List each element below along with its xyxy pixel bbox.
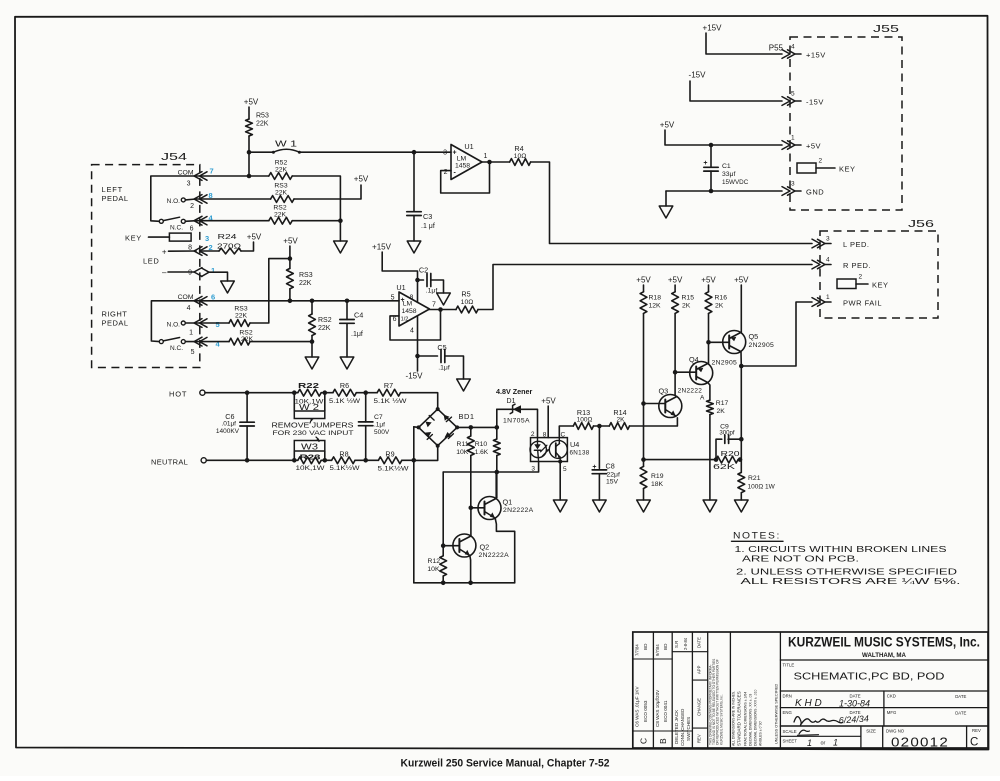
wire Q3 base [644,403,666,405]
capacitor C4 (.1uf) [346,301,348,320]
wire pin8 row [196,198,271,200]
svg-text:R18: R18 [649,295,662,302]
svg-text:+5V: +5V [283,237,298,246]
svg-text:5.1K½W: 5.1K½W [378,465,410,473]
wire Q2 emitter [469,556,472,583]
svg-text:ANGLES ± 0°30: ANGLES ± 0°30' [759,720,763,746]
svg-text:62K: 62K [713,464,736,471]
capacitor C2 (.1uf) [418,279,424,281]
pin 4 arrow (J56) [812,260,820,269]
svg-text:DELETED JACK: DELETED JACK [674,709,679,744]
svg-text:LEFT: LEFT [102,185,124,194]
node RS2 col bottom [310,339,315,344]
capacitor C9 (300pf) [716,439,722,459]
svg-text:PEDAL: PEDAL [102,319,129,328]
resistor R9 (5.1K half W) [355,459,378,461]
wire rail to bridge left [414,426,419,429]
node C8 top [597,424,602,429]
resistor R7 (5.1K half W) [356,392,377,394]
wire pin3 to Q2 base [442,472,444,546]
svg-text:ALL DIMENSIONS ARE IN INCHES.: ALL DIMENSIONS ARE IN INCHES. [732,691,736,746]
title block frame [633,632,988,748]
svg-text:Kurzweil 250 Service Manual, C: Kurzweil 250 Service Manual, Chapter 7-5… [401,758,610,770]
svg-text:5: 5 [216,320,220,329]
svg-text:+15V: +15V [372,243,392,252]
wire R18 to Q3 base [643,313,645,403]
wire to J55 ground [665,191,667,206]
svg-text:DECIMAL DIMENSIONS .XXX ± .010: DECIMAL DIMENSIONS .XXX ± .010 [754,690,758,746]
svg-text:GND: GND [806,188,824,197]
wire R24 to +5V [241,242,254,251]
svg-text:R16: R16 [715,295,728,302]
svg-text:+5V: +5V [541,397,556,406]
key pin J56 [837,279,856,289]
svg-text:APP: APP [697,665,702,674]
svg-text:9: 9 [188,270,192,277]
pin 4 COM arrow [194,296,202,305]
wire R10 col [496,427,498,439]
svg-text:22K: 22K [318,325,331,332]
svg-text:2K: 2K [715,303,724,310]
wire COM right pedal [151,301,196,342]
wire R12 to rail [442,576,444,583]
jumper W2 [293,393,295,411]
wire U1b out [430,309,457,311]
node Q2 base [441,543,446,548]
svg-text:ENG: ENG [783,710,793,715]
wire to ground [339,221,341,241]
svg-text:C4: C4 [354,311,363,320]
resistor R10 (1.6K) [493,439,500,456]
svg-text:1N705A: 1N705A [503,418,530,425]
pin 3 COM arrow [194,172,202,181]
contact N.O. (right) [181,321,185,325]
svg-text:BD1: BD1 [459,412,475,421]
wire +5V to R53 [248,107,250,119]
svg-text:L PED.: L PED. [843,240,869,249]
svg-text:ECO 0041: ECO 0041 [663,700,668,722]
svg-text:BD: BD [643,643,648,650]
transistor Q1 (2N2222A) [478,497,501,520]
resistor R52 pin7 (22K) [269,173,292,180]
svg-text:C: C [639,738,649,744]
svg-text:2: 2 [190,203,194,210]
svg-text:-15V: -15V [689,71,707,80]
svg-text:2-8-84: 2-8-84 [683,637,688,650]
svg-text:KURZWEIL MUSIC SYSTEMS, Inc.: KURZWEIL MUSIC SYSTEMS, Inc. [788,634,980,650]
svg-text:2. UNLESS OTHERWISE SPECIFIE: 2. UNLESS OTHERWISE SPECIFIED [736,568,957,577]
ground (left pedal pullups) [334,241,348,253]
node Q2 emitter rail [468,581,473,586]
svg-text:WALTHAM, MA: WALTHAM, MA [862,652,906,659]
svg-text:8: 8 [543,432,547,439]
wire Q1 collector [495,472,497,498]
svg-text:+15V: +15V [703,24,723,33]
connector J56 dashed box [820,231,938,318]
svg-text:J56: J56 [908,218,934,230]
svg-text:N.O.: N.O. [167,198,181,205]
svg-text:CHANGE: CHANGE [697,698,702,716]
svg-text:+: + [703,160,707,167]
svg-text:DATE: DATE [697,637,702,648]
wire Q4 base [675,371,696,373]
svg-text:1: 1 [211,266,215,275]
svg-text:4.8V Zener: 4.8V Zener [496,387,533,396]
wire U4 pin3 [443,462,538,473]
svg-text:7/7/84: 7/7/84 [635,644,640,656]
svg-text:2: 2 [531,431,535,438]
wire Q5 collector [740,352,742,366]
svg-text:R53: R53 [256,113,269,120]
svg-text:2N2222A: 2N2222A [503,507,534,514]
resistor RS3 vertical (22K) [287,268,294,288]
wire LED+ row [169,250,197,252]
resistor R22 (10K 1W) [298,389,321,396]
svg-text:REV: REV [697,734,702,743]
wire R15 to Q3 collector [674,372,676,394]
switch common contact (right) [159,340,163,344]
wire R52b to junction [292,220,340,222]
svg-text:22K: 22K [299,280,312,287]
wire HOT row [205,392,298,394]
svg-text:10K,1W: 10K,1W [296,465,326,472]
wire COM to switch [151,176,196,221]
svg-text:+5V: +5V [668,276,683,285]
resistor R17 (2K) [707,400,714,415]
svg-text:SCHEMATIC,PC BD, POD: SCHEMATIC,PC BD, POD [794,671,945,683]
wire R10 to Q1 collector [496,472,498,498]
svg-text:4: 4 [187,305,191,312]
wire Q5 col to R21 [740,366,742,472]
ground (R17) [703,500,717,512]
wire +5V to pin1 [665,130,782,145]
svg-text:6: 6 [190,226,194,233]
svg-text:D1: D1 [507,398,516,405]
svg-text:-15V: -15V [806,98,824,107]
node R11 top [469,425,474,430]
node C4 col junction [345,299,350,304]
svg-text:N.O.: N.O. [167,322,181,329]
pin 5 wire [185,341,196,343]
svg-text:.01μf: .01μf [221,421,236,428]
svg-text:10Ω: 10Ω [461,299,474,306]
wire Q2 base [443,545,459,547]
resistor R19 (18K) [643,460,645,467]
svg-text:B: B [658,738,668,744]
wire W1 to C3 node [299,151,414,153]
svg-text:STANDARD TOLERANCES: STANDARD TOLERANCES [737,691,742,746]
svg-text:W 1: W 1 [275,140,298,149]
wire Q1 base [471,507,485,509]
capacitor C1 (33uf 15WVDC) [710,145,712,167]
svg-text:C1: C1 [722,163,731,170]
svg-text:+5V: +5V [244,98,259,107]
ground (C8) [593,500,607,512]
pin 4 arrow (J55) [782,50,790,59]
wire R16 to Q5 base [708,313,710,342]
node C7 bottom [363,458,368,463]
svg-text:R15: R15 [682,295,695,302]
key pin J55 [797,163,816,173]
node U1 output [487,160,492,165]
ground (J55) [659,206,673,218]
resistor R11 (10K) [467,436,474,456]
svg-text:N.C.: N.C. [170,345,183,352]
svg-text:5.1K ½W: 5.1K ½W [374,397,408,405]
ground (R19) [637,500,651,512]
svg-text:+5V: +5V [734,276,749,285]
node R20 right [738,457,743,462]
svg-text:R21: R21 [748,475,761,482]
wire left rail [413,427,415,583]
svg-text:.1μf: .1μf [374,422,385,429]
svg-text:10K: 10K [427,566,440,573]
svg-text:+5V: +5V [354,175,369,184]
pin 3 arrow (J56) [812,239,820,248]
node C2 junction [415,278,420,283]
svg-text:270Ω: 270Ω [217,244,241,251]
wire bottom rail [414,582,515,584]
svg-text:1400KV: 1400KV [216,428,240,435]
wire R52 to gnd column [292,176,340,221]
svg-text:R24: R24 [218,232,237,241]
svg-text:15V: 15V [606,479,619,486]
wire RS3 up to +5V [250,259,290,323]
jumper W1 [249,151,273,153]
svg-text:22K: 22K [235,313,248,320]
svg-text:1: 1 [484,153,488,160]
svg-text:KURZWEIL MUSIC SYSTEMS, Inc.: KURZWEIL MUSIC SYSTEMS, Inc. [719,694,723,745]
svg-text:2N2905: 2N2905 [712,360,738,367]
node W3 left [292,458,297,463]
wire RS2 col top [311,301,313,314]
node C1 bottom [709,189,714,194]
svg-text:SWITCHES: SWITCHES [686,717,691,741]
svg-text:22K: 22K [275,167,288,174]
svg-text:RS2: RS2 [318,317,332,324]
svg-text:1: 1 [807,738,812,748]
pin 6 arrow [194,216,202,225]
wire GND row [666,190,782,192]
resistor R13 (100 ohm) [573,423,593,430]
resistor R14 (2K) [609,423,629,430]
op-amp U1 (LM1458) top [451,145,482,180]
svg-text:5: 5 [791,91,795,98]
terminal HOT [200,390,205,395]
svg-text:3: 3 [826,236,830,243]
svg-text:J54: J54 [161,151,187,163]
svg-text:BD: BD [663,643,668,650]
wire to -15V [417,356,419,371]
wire R5 to J56 R PED [478,265,812,310]
transistor Q3 (2N2222) [659,395,682,418]
svg-text:2N2905: 2N2905 [749,342,775,349]
svg-text:300pf: 300pf [719,430,735,437]
svg-text:REMOVE JUMPERS: REMOVE JUMPERS [272,423,354,430]
svg-text:U1: U1 [396,283,405,292]
wire +5V col [289,246,291,268]
svg-text:KEY: KEY [839,165,856,174]
node Q1 base [469,506,474,511]
wire Q1 emitter [495,518,515,583]
svg-text:KEY: KEY [125,234,142,243]
svg-text:W 2: W 2 [299,403,319,412]
svg-text:100Ω 1W: 100Ω 1W [748,484,776,491]
node RS2 col junction [310,299,315,304]
svg-text:RS2: RS2 [273,205,286,212]
resistor R15 (2K) [674,285,676,292]
pin 2 wire [185,198,196,201]
svg-text:C3: C3 [423,212,432,221]
svg-text:R7: R7 [384,381,393,390]
wire U1 feedback [441,162,490,193]
capacitor C8 (22uf 15V) [598,426,600,468]
bridge rectifier BD1 [419,409,458,446]
svg-text:.1μf: .1μf [438,365,450,372]
svg-text:3: 3 [205,234,209,243]
svg-text:.1μf: .1μf [426,288,438,295]
svg-text:DECIMAL DIMENSIONS .XX ± .03: DECIMAL DIMENSIONS .XX ± .03 [749,694,753,746]
wire +5V to Q5 emitter [740,285,742,333]
contact N.C. (right) [181,340,185,344]
node C6 bottom [245,458,250,463]
contact N.O. (left) [181,198,185,202]
ground (C3) [407,241,421,253]
wire R4 to J56 L PED [531,162,812,244]
svg-text:U4: U4 [570,440,579,449]
resistor RS3 pin1 (22K) [196,322,229,324]
resistor R21 (100 ohm 1W) [738,472,745,492]
wire U1b feedback [390,310,441,341]
optocoupler U4 (6N138) [531,438,568,462]
svg-text:SCALE: SCALE [783,729,797,734]
wire RS2 to col [250,341,312,343]
svg-text:6: 6 [393,316,397,323]
wire R17 to gnd [709,415,711,500]
wire Q4 collector to R17 [708,383,710,401]
node C6 top [245,390,250,395]
node C7 top [363,390,368,395]
svg-text:2N2222: 2N2222 [678,388,703,395]
node Q5 base [706,340,711,345]
resistor R24 (270 ohm) [202,250,219,252]
resistor R53 (22K vertical) [246,119,253,136]
svg-text:+: + [162,248,167,257]
svg-text:KEY: KEY [872,281,889,290]
svg-text:K H D: K H D [795,698,822,709]
svg-text:1458: 1458 [455,163,470,170]
svg-text:C2: C2 [419,266,428,275]
svg-text:.1μf: .1μf [351,331,363,338]
svg-text:CONN. CHANGED: CONN. CHANGED [680,709,685,746]
transistor Q2 (2N2222A) [453,534,476,557]
svg-text:4: 4 [826,257,830,264]
resistor R53 pin8 (22K) [271,196,294,203]
svg-text:PEDAL: PEDAL [102,194,129,203]
node COM7 junction [247,174,252,179]
svg-text:500V: 500V [374,429,390,436]
svg-text:22K: 22K [274,212,287,219]
svg-text:1458: 1458 [401,308,416,315]
transistor Q5 (2N2905) [723,331,746,354]
svg-text:DWG NO: DWG NO [886,729,905,734]
svg-text:5.1K½W: 5.1K½W [330,464,361,472]
node R20 left [714,457,719,462]
svg-text:3: 3 [791,181,795,188]
resistor R5 (10 ohm) [456,306,478,313]
wire +15V to pin8 [382,252,417,302]
wire +5V to U4 pin8 [547,406,549,438]
mating pin arrow [202,268,210,277]
svg-text:UNLESS OTHERWISE SPECIFIED: UNLESS OTHERWISE SPECIFIED [775,683,779,744]
wire R18 col to R19 [643,404,645,460]
connector J54 dashed box [92,165,200,368]
wire R11 to Q1 base [470,427,472,436]
node W1-left junction [247,150,252,155]
wire pin4 row [196,220,269,222]
node Q3 base [641,401,646,406]
wire Q2 collector [470,508,472,536]
svg-text:22μf: 22μf [607,472,620,479]
svg-text:2K: 2K [617,417,626,424]
svg-text:R22: R22 [298,381,319,390]
svg-text:.1 μf: .1 μf [421,223,435,230]
pin 9 arrow [194,268,202,277]
svg-text:+5V: +5V [806,142,821,151]
svg-text:SHEET: SHEET [783,739,798,744]
svg-text:+5V: +5V [701,276,716,285]
svg-text:+5V: +5V [660,121,675,130]
wire NEUTRAL row [206,459,297,461]
svg-text:C: C [561,432,566,439]
svg-text:2N2222A: 2N2222A [479,552,510,559]
svg-text:HOT: HOT [169,390,187,399]
resistor R20 (62K) [716,456,738,463]
svg-text:Q4: Q4 [689,355,699,364]
svg-text:Q1: Q1 [503,498,513,507]
svg-text:S.R: S.R [674,641,679,648]
node Q4 base [673,370,678,375]
pin 1 arrow (J56) [812,298,820,307]
svg-text:1: 1 [791,135,795,142]
node C9 right [739,437,744,442]
svg-text:MFG: MFG [887,710,897,715]
node W2 right [323,390,328,395]
resistor R12 (10K) [442,546,444,556]
svg-text:5.1K ½W: 5.1K ½W [329,397,361,405]
svg-text:TITLE: TITLE [783,663,795,668]
svg-text:3: 3 [443,150,447,157]
wire R14 to Q3 emitter [630,418,678,426]
contact N.C. (left) [181,219,185,223]
svg-text:R6: R6 [340,381,349,390]
svg-text:R52: R52 [275,160,288,167]
svg-text:J55: J55 [873,23,899,35]
wire PWR FAIL [741,302,812,366]
svg-text:12K: 12K [649,303,662,310]
svg-text:+5V: +5V [247,233,262,242]
wire COM row to U1b pin5 [196,300,399,302]
svg-text:2K: 2K [717,408,726,415]
ground (C4) [340,357,354,369]
svg-text:DATE: DATE [955,711,966,716]
svg-text:R20: R20 [721,451,740,458]
ground (U4 pin5) [553,500,567,512]
svg-text:2: 2 [819,158,823,165]
node R12 rail [441,581,446,586]
svg-text:R4: R4 [514,144,523,153]
svg-text:4: 4 [410,328,414,335]
